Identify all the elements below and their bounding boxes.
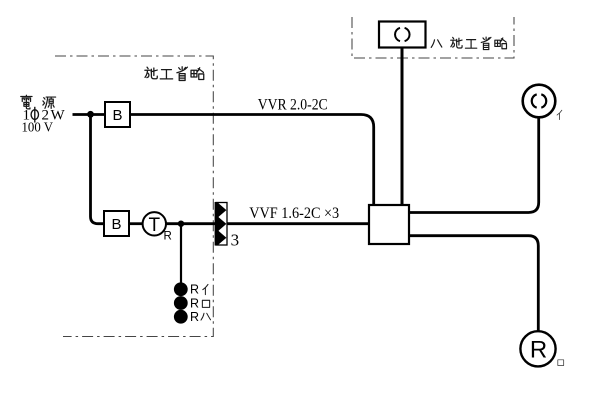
label R-ro	[190, 296, 210, 310]
junction box	[369, 205, 409, 244]
wire: main vertical drop with corner to lower breaker	[91, 115, 105, 224]
svg-text:100 V: 100 V	[22, 119, 54, 134]
wire: VVF run to junction box	[227, 222, 369, 225]
node: relay branch dot	[178, 221, 184, 227]
svg-text:3: 3	[231, 231, 240, 250]
svg-text:VVR 2.0-2C: VVR 2.0-2C	[258, 97, 328, 114]
breaker B1 (upper)	[105, 102, 130, 127]
remote-control relay R-i	[174, 282, 188, 296]
svg-text:B: B	[111, 216, 121, 233]
svg-text:VVF 1.6-2C ×3: VVF 1.6-2C ×3	[249, 205, 339, 222]
wire: source lead	[73, 113, 106, 116]
wire: drop to remote-control relays	[180, 224, 182, 283]
wire: run to ceiling rosette I	[409, 118, 539, 213]
lamp receptacle R RO	[520, 331, 555, 366]
dashed boundary (left construction-omitted region)	[55, 56, 213, 337]
wire: run to lamp receptacle RO	[409, 236, 538, 331]
remote-control relay R-ro	[174, 296, 188, 310]
svg-text:R: R	[190, 310, 199, 324]
label R-i	[190, 283, 208, 297]
svg-text:R: R	[190, 283, 199, 297]
wire: rosette HA drop to junction box	[401, 48, 404, 206]
label R-ha	[190, 310, 211, 324]
remote-control relay R-ha	[174, 310, 188, 324]
svg-text:T: T	[148, 215, 160, 236]
label ro (subscript)	[558, 360, 564, 366]
terminal block (3 poles)	[215, 202, 227, 246]
label 施工省略 (left region)	[145, 67, 204, 81]
ceiling rosette (round) I	[523, 85, 556, 118]
dashed boundary (top-right construction-omitted box)	[352, 17, 514, 58]
label 電源 (power source)	[21, 95, 56, 109]
label i (subscript)	[557, 110, 562, 119]
svg-text:B: B	[112, 107, 122, 124]
svg-text:R: R	[530, 337, 547, 364]
node: source junction dot	[87, 111, 94, 118]
svg-text:R: R	[190, 296, 199, 310]
wire: breaker to timer	[129, 222, 143, 225]
svg-text:R: R	[164, 230, 172, 242]
breaker B2 (lower)	[104, 211, 129, 236]
ceiling rosette (angular) HA	[379, 22, 426, 48]
label ha + 施工省略 (top right)	[431, 37, 506, 49]
wire: VVR run from breaker to junction box	[130, 115, 374, 206]
wire: timer to terminal block	[166, 222, 216, 225]
timer TR	[143, 212, 172, 242]
